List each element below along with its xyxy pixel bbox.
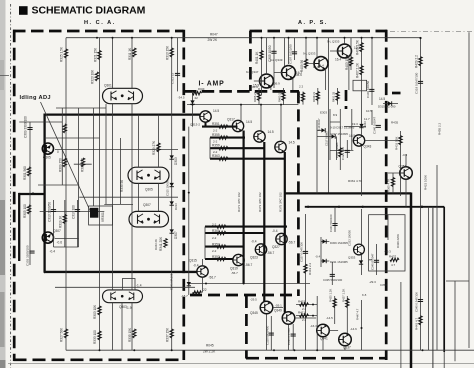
- svg-text:14.5: 14.5: [268, 130, 274, 134]
- svg-text:-29.5: -29.5: [250, 298, 257, 302]
- dashed border: right edge: [385, 30, 388, 360]
- resistor bump s7: [217, 231, 226, 234]
- svg-text:-1.4: -1.4: [136, 284, 142, 288]
- bus L corner left: [19, 193, 45, 195]
- capacitor C305: [271, 51, 276, 53]
- svg-text:22: 22: [195, 96, 199, 100]
- svg-text:Q341: Q341: [320, 337, 328, 341]
- scan edge dotted rule: [10, 4, 12, 368]
- svg-text:R315 150: R315 150: [80, 158, 84, 172]
- svg-text:I- AMP: I- AMP: [199, 80, 225, 87]
- resistor R307: [64, 329, 67, 338]
- svg-text:A. P. S.: A. P. S.: [298, 20, 328, 26]
- dashed border: APS left edge: [249, 31, 252, 91]
- svg-text:R333 100: R333 100: [93, 330, 97, 344]
- svg-text:R329 27K: R329 27K: [152, 140, 156, 155]
- resistor R433: [399, 136, 402, 145]
- svg-text:R455 2.2: R455 2.2: [438, 122, 442, 135]
- resistor R453: [257, 92, 260, 101]
- diode D301: [190, 100, 194, 104]
- resistor R323: [95, 72, 98, 81]
- svg-text:K-5: K-5: [362, 293, 367, 297]
- svg-text:R403 150: R403 150: [345, 56, 349, 70]
- svg-text:R365 4.7K: R365 4.7K: [387, 179, 391, 192]
- svg-text:-0.6: -0.6: [57, 241, 63, 245]
- scan edge tick: [0, 75, 9, 77]
- wire Q311 emitter stub: [205, 122, 207, 126]
- svg-text:2.2: 2.2: [302, 318, 307, 322]
- resistor R360 step lower3: [205, 232, 264, 234]
- svg-text:R343 2K: R343 2K: [154, 239, 158, 250]
- svg-text:D343: D343: [363, 121, 367, 128]
- svg-text:Q301: Q301: [104, 84, 112, 88]
- dashed border: APS top: [250, 30, 388, 33]
- svg-text:2-2: 2-2: [212, 222, 217, 226]
- dashed border: bottom right: [246, 357, 388, 360]
- dual transistor Q301 pack: [103, 88, 143, 103]
- capacitor C319: [418, 81, 423, 83]
- svg-text:2-2: 2-2: [213, 150, 218, 154]
- capacitor C307: [292, 52, 297, 54]
- bus right upper: [285, 192, 411, 194]
- junction dots bus right: [307, 206, 309, 208]
- svg-text:R359: R359: [212, 144, 220, 148]
- resistor R407: [360, 66, 363, 75]
- svg-text:R363: R363: [212, 154, 220, 158]
- svg-text:C303 3300/100: C303 3300/100: [26, 245, 30, 266]
- resistor R373 rail: [263, 142, 265, 302]
- svg-text:-56.7: -56.7: [231, 271, 238, 275]
- svg-text:R423 100K: R423 100K: [424, 175, 428, 190]
- wire output loop: [123, 279, 136, 291]
- transistor Q307: [42, 232, 53, 243]
- transistor Q327: [276, 233, 287, 244]
- svg-text:R321 15K: R321 15K: [94, 47, 98, 62]
- wire Q315 emitter: [193, 277, 203, 292]
- svg-text:-59.1: -59.1: [275, 304, 282, 308]
- svg-text:D315 WZ-090: D315 WZ-090: [378, 105, 396, 109]
- wire mesh right ladder: [401, 32, 469, 368]
- transistor Q351: [400, 167, 413, 180]
- dashed border: APS inner dash: [345, 90, 348, 109]
- resistor bump s1: [219, 125, 228, 128]
- resistor bump s5: [217, 257, 226, 260]
- svg-text:R335 15K: R335 15K: [128, 327, 132, 342]
- resistor R319: [63, 215, 66, 224]
- svg-text:2-2: 2-2: [212, 249, 217, 253]
- resistor R457: [282, 92, 285, 101]
- capacitor C313: [51, 210, 56, 212]
- dashed border: bottom left: [14, 358, 185, 361]
- resistor R429: [419, 57, 422, 66]
- resistor R333: [98, 331, 101, 340]
- transistor Q345: [260, 301, 273, 314]
- bus right vertical rail: [410, 193, 413, 368]
- dual transistor Q305 pack: [128, 167, 169, 183]
- svg-text:-56.7: -56.7: [245, 263, 252, 267]
- resistor R375 rail: [284, 152, 286, 313]
- wire mesh HCA verticals: [66, 38, 172, 351]
- svg-text:C327 0.047/100: C327 0.047/100: [299, 242, 303, 262]
- transistor Q353: [354, 244, 365, 255]
- svg-text:Q315: Q315: [189, 259, 197, 263]
- svg-text:C303 100/50: C303 100/50: [366, 80, 370, 98]
- capacitor C323: [345, 150, 350, 152]
- capacitor C327: [303, 251, 308, 253]
- dashed border: stub right: [392, 92, 401, 95]
- diode D311: [322, 259, 326, 263]
- wire feedback box: [369, 215, 405, 271]
- resistor R337: [170, 329, 173, 338]
- wire Q325 feed: [280, 105, 282, 142]
- svg-text:C345 0.547/100: C345 0.547/100: [414, 292, 418, 312]
- resistor R335: [133, 329, 136, 338]
- svg-text:C353: C353: [380, 283, 387, 287]
- svg-text:22: 22: [203, 288, 207, 292]
- capacitor C321: [332, 224, 337, 226]
- bus far right vertical: [443, 207, 445, 352]
- resistor R415: [300, 303, 309, 306]
- svg-text:R405 1.5K: R405 1.5K: [355, 39, 359, 55]
- resistor R331: [98, 306, 101, 315]
- wire emitter rail row: [190, 283, 310, 285]
- svg-text:C341 MA105: C341 MA105: [169, 273, 173, 290]
- svg-text:R305 100: R305 100: [23, 204, 27, 218]
- resistor R425: [333, 299, 336, 308]
- svg-text:-1.9: -1.9: [126, 306, 132, 310]
- resistor R421: [339, 148, 342, 157]
- svg-text:R447 4.7: R447 4.7: [355, 308, 359, 320]
- svg-text:10.5: 10.5: [366, 109, 372, 113]
- svg-text:-56.7: -56.7: [288, 241, 295, 245]
- wire I-AMP rail: [187, 104, 298, 106]
- svg-text:-0.4: -0.4: [251, 240, 257, 244]
- resistor R309: [63, 158, 66, 167]
- junction dots misc: [32, 192, 34, 194]
- svg-text:R429 2.2: R429 2.2: [414, 55, 418, 68]
- capacitor C303: [29, 251, 34, 253]
- wire supply rail top: [66, 37, 421, 39]
- wire D317 column: [188, 127, 190, 295]
- svg-text:-0.4: -0.4: [50, 250, 56, 254]
- wire mesh APS verticals: [262, 38, 421, 351]
- bus main HCA horizontal: [44, 113, 201, 115]
- svg-text:36.9: 36.9: [274, 82, 280, 86]
- transistor Q319: [233, 254, 244, 265]
- resistor R321: [98, 51, 101, 60]
- svg-text:Q343: Q343: [364, 145, 372, 149]
- dual transistor Q307 pack: [129, 211, 169, 227]
- scan bottom rule: [8, 363, 474, 365]
- svg-text:C347 016M5: C347 016M5: [335, 142, 339, 158]
- resistor R371 rail: [243, 131, 245, 285]
- diode D303: [170, 155, 174, 159]
- svg-text:Q307: Q307: [143, 203, 151, 207]
- svg-text:0: 0: [57, 150, 59, 154]
- capacitor C325: [330, 274, 335, 276]
- svg-text:D307: D307: [174, 231, 178, 239]
- wire mesh APS base links: [254, 51, 349, 90]
- resistor R315: [81, 158, 84, 167]
- svg-text:R407 2.2K: R407 2.2K: [355, 62, 359, 78]
- dashed border: HCA top: [13, 30, 184, 33]
- svg-text:-20.3: -20.3: [384, 250, 391, 254]
- svg-text:-34.5: -34.5: [178, 96, 185, 100]
- wire mesh HCA extra vertical: [119, 138, 121, 204]
- svg-text:Q305: Q305: [43, 156, 51, 160]
- svg-text:R351: R351: [212, 122, 220, 126]
- svg-text:C325 5600/100: C325 5600/100: [323, 278, 343, 282]
- diode D343: [359, 124, 363, 128]
- svg-text:9-L Q335: 9-L Q335: [327, 40, 340, 44]
- resistor R305: [27, 205, 30, 214]
- capacitor C340: [376, 125, 381, 127]
- bus HCA vertical rail: [43, 114, 45, 273]
- wire step join upper: [209, 138, 211, 159]
- svg-text:R323 10K: R323 10K: [91, 69, 95, 84]
- transistor Q325: [275, 141, 286, 152]
- svg-text:16.4: 16.4: [335, 58, 341, 62]
- svg-text:C340 0.0047: C340 0.0047: [372, 116, 376, 134]
- svg-text:R311 1K: R311 1K: [128, 47, 132, 60]
- svg-text:R339 56: R339 56: [120, 180, 124, 192]
- transistor Q341: [317, 324, 330, 337]
- svg-text:R309 150: R309 150: [59, 158, 63, 172]
- svg-text:R445 21: R445 21: [297, 91, 301, 102]
- svg-text:C345 B-0047: C345 B-0047: [370, 253, 374, 270]
- resistor R329: [157, 143, 160, 152]
- svg-text:9-10 D317: 9-10 D317: [317, 118, 321, 131]
- transistor Q311: [200, 111, 211, 122]
- resistor R403: [349, 57, 352, 66]
- svg-text:R437: R437: [389, 255, 397, 259]
- resistor R311: [133, 48, 136, 57]
- svg-text:-56.7: -56.7: [267, 251, 274, 255]
- svg-text:Q351: Q351: [399, 165, 407, 169]
- transistor Q347: [260, 74, 274, 88]
- dashed border: I-AMP bottom: [190, 294, 298, 297]
- wire bias columns: [259, 88, 338, 105]
- svg-text:H. C. A.: H. C. A.: [84, 20, 116, 26]
- svg-text:-29.3: -29.3: [369, 280, 376, 284]
- resistor R437: [390, 258, 399, 261]
- svg-text:Q319: Q319: [230, 267, 238, 271]
- svg-text:R371 3PC 102: R371 3PC 102: [237, 192, 241, 212]
- resistor R355 step2: [210, 137, 245, 139]
- junction dots I-AMP rail: [240, 104, 242, 106]
- wire Q311 base column: [192, 91, 194, 126]
- wire C311 column: [177, 38, 179, 92]
- svg-text:Q313-2: Q313-2: [190, 123, 200, 127]
- svg-text:Q317: Q317: [227, 118, 235, 122]
- svg-text:C321 560/100: C321 560/100: [329, 214, 333, 232]
- transistor Q349a: [282, 66, 296, 80]
- title square: [19, 6, 28, 15]
- svg-text:-0.4: -0.4: [193, 264, 199, 268]
- diode D315: [388, 101, 392, 105]
- wire mesh HCA horizontals: [19, 108, 195, 287]
- resistor R365: [391, 178, 394, 187]
- capacitor C331: [291, 334, 296, 336]
- trimmer VR301: [90, 208, 98, 218]
- svg-text:C313 2200/50: C313 2200/50: [47, 202, 51, 222]
- svg-text:R415: R415: [298, 300, 306, 304]
- resistor R449: [316, 92, 319, 101]
- transistor Q331: [314, 57, 328, 71]
- svg-text:Q323: Q323: [250, 256, 258, 260]
- junction dots bottom rail: [99, 349, 101, 351]
- svg-text:C323 100: C323 100: [341, 147, 345, 160]
- svg-text:Q327: Q327: [272, 245, 280, 249]
- svg-text:11.7: 11.7: [364, 117, 370, 121]
- svg-text:R419 2.2: R419 2.2: [308, 262, 312, 275]
- svg-text:36.4: 36.4: [318, 64, 324, 68]
- resistor R401: [260, 51, 263, 60]
- svg-text:R427 1.2K: R427 1.2K: [341, 289, 345, 302]
- capacitor C347: [374, 260, 379, 262]
- svg-text:9-10 D317 1S16M5: 9-10 D317 1S16M5: [330, 126, 355, 130]
- scan edge gray strip: [0, 0, 6, 368]
- svg-text:R047: R047: [210, 33, 218, 37]
- svg-text:-14.6: -14.6: [350, 327, 357, 331]
- resistor R441: [419, 316, 422, 325]
- svg-text:C305 10/50: C305 10/50: [268, 45, 272, 62]
- resistor bump s4: [219, 157, 228, 160]
- svg-text:Idling ADJ: Idling ADJ: [20, 95, 51, 101]
- svg-text:Q307: Q307: [53, 229, 61, 233]
- resistor R317: [193, 291, 202, 294]
- resistor R451: [336, 92, 339, 101]
- wire Q321 feed: [260, 105, 262, 131]
- svg-text:14.5: 14.5: [379, 97, 385, 101]
- transistor Q323: [255, 244, 266, 255]
- resistor R363 step4: [210, 158, 285, 160]
- svg-text:Q349: Q349: [274, 309, 282, 313]
- wire mesh bottom cluster: [203, 259, 362, 350]
- svg-text:19.3: 19.3: [352, 122, 358, 126]
- wire idling diagonal: [41, 102, 93, 216]
- resistor bump s8: [217, 225, 226, 228]
- svg-text:9-L Q347: 9-L Q347: [246, 70, 259, 74]
- diode D308: [170, 229, 174, 233]
- svg-text:R327 56K: R327 56K: [60, 327, 64, 342]
- resistor R687: [304, 264, 307, 273]
- capacitor C317: [75, 210, 80, 212]
- transistor Q337: [339, 333, 352, 346]
- svg-text:2W 2.2K: 2W 2.2K: [203, 350, 216, 354]
- svg-text:C317 1S16M5: C317 1S16M5: [330, 132, 348, 136]
- svg-text:C333 100/50: C333 100/50: [347, 230, 351, 246]
- dashed border: left edge: [13, 30, 16, 361]
- svg-text:R433 56K: R433 56K: [394, 137, 398, 150]
- svg-text:R045: R045: [206, 344, 214, 348]
- svg-text:R449 21: R449 21: [312, 91, 316, 102]
- wire bias box: [353, 80, 367, 91]
- capacitor C343: [369, 89, 374, 91]
- svg-text:R353: R353: [212, 255, 220, 259]
- bus bottom HCA horizontal: [44, 271, 197, 273]
- svg-text:R301 560: R301 560: [23, 166, 27, 180]
- svg-text:-0.4: -0.4: [315, 255, 321, 259]
- svg-text:C309 3300/100: C309 3300/100: [24, 116, 28, 138]
- svg-text:-18.7: -18.7: [181, 294, 188, 298]
- transistor Q305: [42, 143, 53, 154]
- svg-text:R425 1.2K: R425 1.2K: [329, 289, 333, 302]
- svg-text:-16.3: -16.3: [310, 324, 317, 328]
- svg-text:R435: R435: [391, 121, 399, 125]
- resistor bump s6: [217, 245, 226, 248]
- resistor R411: [300, 314, 309, 317]
- faint dash-dot top right: [390, 31, 474, 33]
- svg-text:SCHEMATIC DIAGRAM: SCHEMATIC DIAGRAM: [32, 5, 146, 17]
- svg-text:Q305: Q305: [145, 188, 153, 192]
- svg-text:C317 0.6M5: C317 0.6M5: [325, 131, 329, 146]
- transistor Q321: [254, 131, 265, 142]
- svg-text:C311 22: C311 22: [171, 73, 175, 84]
- capacitor C309: [27, 128, 32, 130]
- svg-text:R409 56: R409 56: [300, 60, 304, 72]
- svg-text:14.5: 14.5: [246, 120, 252, 124]
- bus left drop: [18, 193, 20, 261]
- resistor bump s2: [219, 136, 228, 139]
- resistor R341: [164, 239, 167, 248]
- svg-text:R405 21: R405 21: [253, 91, 257, 102]
- diode D405: [331, 134, 335, 138]
- svg-text:C317 100: C317 100: [71, 205, 75, 219]
- resistor R301: [27, 167, 30, 176]
- resistor R427: [346, 299, 349, 308]
- svg-text:14.5: 14.5: [289, 141, 295, 145]
- transistor Q343: [353, 135, 364, 146]
- resistor R351 step1: [202, 126, 238, 128]
- bus right lower: [305, 206, 444, 208]
- diode D307: [170, 201, 174, 205]
- svg-text:-0.9: -0.9: [402, 153, 408, 157]
- svg-text:C307 0.022/50: C307 0.022/50: [288, 44, 292, 64]
- svg-text:R049: R049: [198, 87, 205, 91]
- svg-text:8.9: 8.9: [333, 113, 338, 117]
- svg-text:R341 20K: R341 20K: [159, 236, 163, 251]
- svg-text:R355: R355: [212, 133, 220, 137]
- diode D317: [187, 282, 191, 286]
- capacitor C311: [175, 73, 180, 75]
- svg-text:R439 220K: R439 220K: [396, 234, 400, 248]
- wire bottom rail: [66, 349, 474, 351]
- dashed border: mid vertical partition: [182, 30, 185, 360]
- wire step join lower: [204, 227, 206, 259]
- svg-text:E303: E303: [320, 111, 327, 115]
- svg-text:R357: R357: [212, 242, 220, 246]
- diode D309: [322, 239, 326, 243]
- resistor R364 step lower4: [205, 226, 287, 228]
- svg-text:2-2: 2-2: [213, 139, 218, 143]
- dashed border: I-AMP top: [184, 90, 299, 93]
- svg-text:9-L Q333: 9-L Q333: [303, 52, 316, 56]
- svg-text:R411: R411: [298, 311, 305, 315]
- svg-text:36.9: 36.9: [296, 73, 302, 77]
- resistor R352 step lower1: [205, 258, 234, 260]
- transistor Q335: [338, 44, 352, 58]
- wire Q317 feed: [240, 105, 242, 121]
- svg-text:2-2: 2-2: [213, 129, 218, 133]
- svg-text:R313 15K: R313 15K: [165, 45, 169, 60]
- resistor R359 step3: [210, 147, 264, 149]
- resistor bump s3: [219, 147, 228, 150]
- wire mesh APS lower cluster: [306, 104, 407, 351]
- capacitor C345: [418, 300, 423, 302]
- transistor Q315: [197, 266, 208, 277]
- svg-text:4.7: 4.7: [391, 263, 396, 267]
